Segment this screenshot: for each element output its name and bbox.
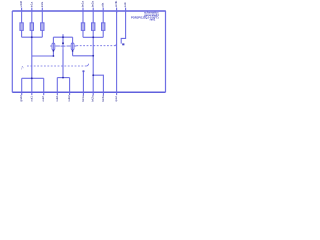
resistor R6 body <box>102 23 105 31</box>
resistor R3 wire <box>41 11 43 37</box>
left box left leg <box>21 78 23 92</box>
Q2 source drop wire <box>62 50 64 78</box>
transistor Q3 body <box>71 43 74 50</box>
pin stub bottom 1 <box>21 92 23 95</box>
pin stub top 3 <box>41 8 43 11</box>
svg-text:selx: selx <box>123 2 127 8</box>
pin stub top 4 <box>82 8 84 11</box>
trio top stub <box>62 34 64 37</box>
pin stub top 7 <box>116 8 118 13</box>
svg-text:bk1a: bk1a <box>81 95 85 102</box>
transistor Q3 drain wire <box>72 37 74 43</box>
frame right edge <box>165 11 167 92</box>
resistor R4 body <box>81 23 84 31</box>
resistor R5 wire <box>92 11 94 37</box>
resistor R5 body <box>92 23 95 31</box>
small device D2 <box>83 70 85 72</box>
top rail VDD <box>12 10 166 12</box>
left box right leg <box>43 78 45 92</box>
transistor Q1 channel <box>52 43 54 51</box>
small device D1 <box>122 43 124 45</box>
left box mid leg <box>31 78 33 92</box>
dashed net 2 end hook <box>87 64 89 66</box>
transistor Q3 channel <box>72 43 74 51</box>
right box left leg <box>56 78 58 93</box>
resistor R1 body <box>20 23 23 31</box>
right box right leg <box>69 78 71 93</box>
svg-text:out2: out2 <box>41 96 45 102</box>
svg-text:bs1a: bs1a <box>81 1 85 8</box>
right lower jog wire <box>93 75 103 92</box>
junction left join <box>31 36 33 38</box>
junction right lower <box>92 74 94 76</box>
svg-text:bk3a: bk3a <box>101 95 105 102</box>
junction Q3 net <box>92 55 94 57</box>
right drop wire <box>92 37 94 75</box>
gate wire segment c <box>67 45 71 47</box>
right drop continue to gnd <box>92 75 94 92</box>
bottom rail GND <box>12 91 165 93</box>
resistor R6 wire <box>102 11 104 37</box>
pin stub bottom 9 <box>116 92 118 95</box>
pin stub bottom 6 <box>82 92 84 95</box>
transistor Q1 drain wire <box>52 37 54 43</box>
left resistor join wire <box>22 36 43 38</box>
pin stub top 1 <box>21 8 23 11</box>
junction left box <box>31 77 33 79</box>
pin stub top 6 <box>102 8 104 11</box>
svg-text:ƒ˕: ƒ˕ <box>21 66 24 70</box>
gate wire segment d <box>74 45 76 47</box>
device D2 wire to gnd <box>82 72 84 93</box>
right box top wire <box>57 77 69 79</box>
Q3 source wire <box>72 51 74 56</box>
svg-text:en3b: en3b <box>114 0 118 7</box>
svg-text:vdd2: vdd2 <box>19 1 23 8</box>
junction trio top <box>62 36 64 38</box>
junction Q1 net <box>53 55 55 57</box>
pin stub top 8 / wire to gate feed <box>121 8 125 44</box>
pin stub top 2 <box>31 8 33 11</box>
left box top wire <box>22 77 44 79</box>
pin stub bottom 7 <box>92 92 94 95</box>
resistor R2 wire <box>31 11 33 37</box>
svg-text:in2a: in2a <box>40 2 44 8</box>
pin stub bottom 5 <box>69 92 71 95</box>
wire pin7 full column <box>116 11 118 92</box>
transistor Q2 channel <box>62 43 64 49</box>
net wire Q1 to left drop <box>32 55 54 57</box>
frame left edge <box>11 11 13 92</box>
pin stub bottom 2 <box>31 92 33 95</box>
svg-text:gnd2: gnd2 <box>19 95 23 102</box>
transistor Q2 drain wire <box>62 37 64 43</box>
svg-text:sub2: sub2 <box>67 95 71 102</box>
left drop wire <box>31 37 33 78</box>
trio top bus <box>53 36 72 38</box>
svg-text:rev1: rev1 <box>150 18 156 22</box>
resistor R1 wire <box>21 11 23 37</box>
svg-text:qout: qout <box>114 96 118 102</box>
gate wire segment a <box>50 45 52 47</box>
net wire Q3 to right drop <box>73 55 94 57</box>
transistor Q2 gate bar <box>61 45 66 47</box>
pin stub top 5 <box>92 8 94 11</box>
svg-text:bs2a: bs2a <box>91 1 95 8</box>
resistor R3 body <box>41 23 44 31</box>
dashed net 2 <box>27 65 87 67</box>
pin stub bottom 8 <box>102 92 104 95</box>
pin stub bottom 3 <box>43 92 45 95</box>
dashed net 1 end hook <box>115 44 117 46</box>
svg-text:bk2a: bk2a <box>91 95 95 102</box>
right resistor join wire <box>83 36 103 38</box>
transistor Q1 body <box>52 43 55 50</box>
junction Q1 source <box>53 50 55 52</box>
resistor R4 wire <box>82 11 84 37</box>
junction right join <box>92 36 94 38</box>
junction Q3 source <box>72 50 74 52</box>
svg-text:ctla: ctla <box>101 3 105 8</box>
junction right box <box>62 77 64 79</box>
dashed net 1 <box>76 45 115 47</box>
Q1 source wire <box>52 51 54 56</box>
svg-text:sub1: sub1 <box>55 95 59 102</box>
gate wire segment b <box>55 45 60 47</box>
pin stub bottom 4 <box>56 92 58 95</box>
svg-text:in1a: in1a <box>29 2 33 8</box>
resistor R2 body <box>30 23 33 31</box>
svg-text:out1: out1 <box>29 96 33 102</box>
junction Q2 drain <box>62 42 64 44</box>
